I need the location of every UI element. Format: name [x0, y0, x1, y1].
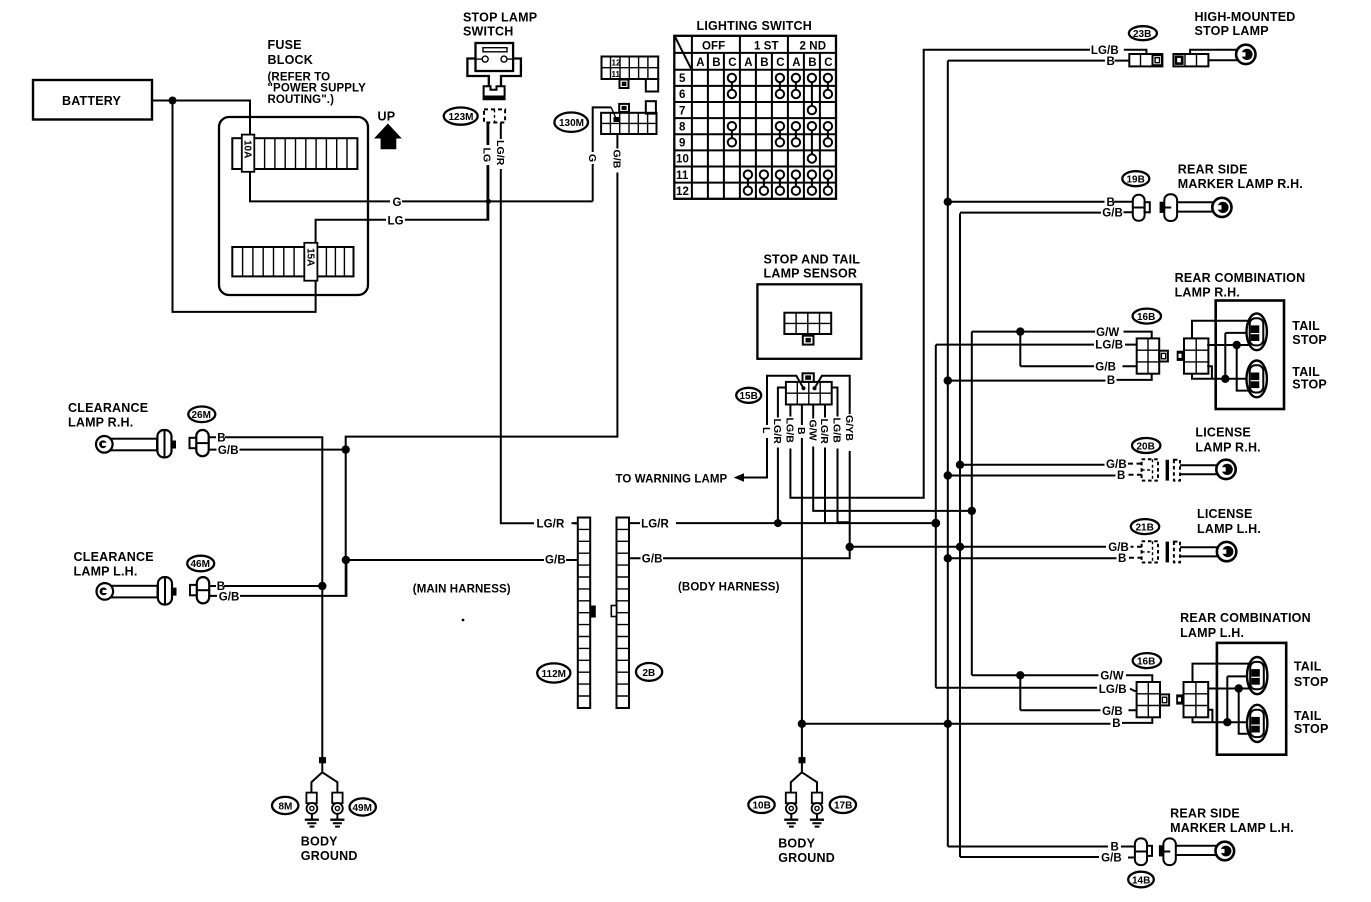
svg-text:BATTERY: BATTERY — [62, 94, 121, 108]
oval 112M — [537, 663, 570, 682]
wire B clearance L.H. — [209, 585, 322, 587]
oval 17B — [830, 797, 856, 813]
svg-text:GROUND: GROUND — [301, 849, 358, 863]
wire G/B body harness — [629, 547, 850, 558]
wire LG/R label2 — [818, 418, 830, 448]
marker RH connector capsules — [1133, 194, 1177, 221]
svg-text:A: A — [696, 57, 704, 69]
svg-text:B: B — [808, 57, 816, 69]
comb LH bulb top — [1247, 657, 1267, 694]
comb RH internal wiring — [1192, 321, 1253, 391]
svg-text:STOP AND TAIL: STOP AND TAIL — [764, 253, 861, 267]
svg-text:CLEARANCE: CLEARANCE — [74, 550, 154, 564]
svg-text:B: B — [1107, 56, 1115, 68]
svg-text:10B: 10B — [753, 801, 771, 812]
svg-text:B: B — [712, 57, 720, 69]
license RH dashed connector — [1142, 459, 1180, 480]
junction G/B license RH — [956, 461, 964, 469]
body ground left wire connector — [311, 757, 337, 793]
high-mounted bulb — [1236, 45, 1255, 64]
comb LH internal wiring — [1193, 664, 1254, 734]
svg-text:46M: 46M — [191, 559, 210, 570]
svg-text:C: C — [824, 57, 832, 69]
svg-text:C: C — [728, 57, 736, 69]
svg-text:(MAIN HARNESS): (MAIN HARNESS) — [413, 584, 511, 596]
comb LH bulb bottom — [1247, 705, 1267, 742]
oval 16B LH — [1133, 653, 1161, 668]
stop and tail lamp sensor title — [764, 253, 861, 281]
svg-text:BODY: BODY — [301, 835, 338, 849]
svg-text:B: B — [217, 432, 225, 444]
wire LG/B stop distribution vertical — [935, 345, 937, 688]
svg-text:B: B — [1117, 470, 1125, 482]
oval 16B RH — [1133, 309, 1161, 324]
wire L sensor — [744, 376, 804, 478]
battery — [33, 80, 152, 120]
svg-text:LG/R: LG/R — [641, 518, 669, 530]
svg-text:15A: 15A — [304, 248, 315, 266]
wire B marker RH — [948, 201, 1133, 203]
oval 19B — [1122, 171, 1149, 186]
wire B vertical to ground — [321, 586, 323, 757]
license LH dashed connector — [1142, 541, 1180, 562]
svg-text:LG/B: LG/B — [784, 418, 796, 444]
svg-text:17B: 17B — [834, 801, 852, 812]
stop lamp switch title — [463, 11, 537, 39]
svg-text:G/B: G/B — [642, 553, 663, 565]
oval 46M — [187, 556, 214, 572]
fuse 15A — [304, 243, 317, 281]
svg-text:26M: 26M — [192, 410, 211, 421]
oval 21B — [1131, 519, 1159, 534]
svg-text:STOP: STOP — [1292, 378, 1327, 392]
wire G fuse to lighting switch — [250, 107, 611, 201]
svg-text:G/W: G/W — [1096, 327, 1119, 339]
svg-text:STOP: STOP — [1294, 722, 1329, 736]
license lamp R.H. title — [1195, 426, 1260, 455]
svg-text:G/B: G/B — [218, 445, 239, 457]
svg-text:REAR SIDE: REAR SIDE — [1170, 807, 1240, 821]
marker RH bulb — [1212, 198, 1231, 217]
marker RH lamp wires — [1177, 202, 1213, 211]
rear combination lamp L.H. title — [1180, 611, 1311, 640]
wire LG label — [386, 214, 405, 228]
oval 20B — [1132, 438, 1160, 453]
wire G/W comb LH — [972, 675, 1153, 682]
wire LG/R label rotated — [494, 139, 506, 169]
svg-text:16B: 16B — [1137, 656, 1155, 667]
svg-text:LAMP L.H.: LAMP L.H. — [1197, 522, 1261, 536]
svg-text:B: B — [1107, 375, 1115, 387]
svg-text:LICENSE: LICENSE — [1195, 426, 1251, 440]
junction LG-G crossing dot — [486, 199, 491, 204]
fuse block outline — [219, 117, 368, 295]
svg-text:LG/R: LG/R — [771, 419, 783, 445]
wire B label — [795, 425, 807, 438]
wire LG/R label — [771, 418, 783, 448]
rear combination lamp R.H. title — [1175, 271, 1306, 300]
warning lamp arrow — [734, 473, 744, 482]
junction battery — [169, 97, 177, 105]
oval 130M — [554, 113, 588, 132]
junction comb RH tail — [1221, 375, 1229, 383]
wire B sensor pin4 to ground — [801, 405, 803, 758]
svg-text:10: 10 — [676, 154, 689, 166]
wire G/YB label — [843, 414, 855, 451]
fuse 10A — [242, 135, 255, 172]
wire LG/R body harness — [629, 522, 936, 524]
junction B license RH — [944, 471, 952, 479]
license RH lamp wires — [1180, 465, 1217, 474]
rear side marker lamp R.H. title — [1178, 163, 1303, 191]
clearance lamp L.H. bulb — [97, 577, 177, 604]
rear side marker lamp L.H. title — [1170, 807, 1294, 836]
svg-text:MARKER LAMP R.H.: MARKER LAMP R.H. — [1178, 177, 1303, 191]
svg-text:STOP: STOP — [1292, 333, 1327, 347]
svg-text:TO WARNING LAMP: TO WARNING LAMP — [616, 474, 728, 486]
junction G/W G/B branch RH — [1016, 327, 1024, 335]
wire G/B main harness — [346, 559, 578, 561]
junction comb LH tail — [1223, 718, 1231, 726]
svg-text:20B: 20B — [1137, 441, 1155, 452]
svg-text:G/B: G/B — [1106, 459, 1127, 471]
junction comb LH stop — [1235, 684, 1243, 692]
wire G/W label — [806, 419, 818, 447]
svg-text:LG/B: LG/B — [1095, 340, 1123, 352]
license RH bulb — [1216, 460, 1235, 479]
comb RH connector right half — [1177, 338, 1209, 373]
oval 2B — [636, 663, 662, 681]
svg-text:REAR COMBINATION: REAR COMBINATION — [1175, 271, 1306, 285]
wire G/B license LH — [1131, 546, 1142, 548]
oval 23B — [1129, 26, 1157, 40]
wire B marker LH — [948, 846, 1135, 848]
svg-text:LICENSE: LICENSE — [1197, 507, 1253, 521]
svg-text:G/B: G/B — [1102, 706, 1123, 718]
high-mounted connector left — [1129, 54, 1162, 66]
svg-text:G/B: G/B — [1101, 853, 1122, 865]
svg-text:STOP LAMP: STOP LAMP — [463, 11, 537, 25]
connector 123M dashed — [484, 109, 505, 122]
svg-text:11: 11 — [676, 170, 689, 182]
connector 15B — [786, 373, 832, 404]
wire G/W comb RH — [972, 332, 1152, 339]
wire LG/B label2 — [831, 417, 843, 449]
svg-text:SWITCH: SWITCH — [463, 25, 514, 39]
speck — [462, 619, 465, 622]
lighting switch contacts — [728, 74, 832, 195]
wire LG/R sensor pin2 — [778, 388, 786, 524]
connector 46M capsule — [190, 577, 209, 603]
wire B comb RH — [948, 374, 1152, 381]
wire G/B vertical to L.H. — [345, 450, 347, 596]
fuse row top — [232, 138, 357, 169]
connector 2B strip — [611, 518, 629, 709]
comb LH connector right half — [1176, 682, 1208, 717]
svg-text:5: 5 — [679, 73, 686, 85]
clearance lamp R.H. bulb — [96, 430, 176, 457]
lighting switch connector upper block — [602, 57, 659, 92]
wire LG/B comb RH — [936, 344, 1137, 346]
svg-text:14B: 14B — [1132, 875, 1150, 886]
comb LH connector left half — [1137, 682, 1170, 717]
license LH lamp wires — [1180, 547, 1217, 556]
svg-text:GROUND: GROUND — [778, 851, 835, 865]
wire G/B marker LH — [960, 856, 1135, 859]
junction B feed — [944, 720, 952, 728]
junction B clearance L.H. — [318, 582, 326, 590]
svg-text:7: 7 — [679, 105, 686, 117]
svg-text:TAIL: TAIL — [1294, 660, 1322, 674]
svg-text:REAR COMBINATION: REAR COMBINATION — [1180, 611, 1311, 625]
clearance lamp L.H. title — [74, 550, 154, 579]
sensor internal connector — [784, 313, 831, 345]
svg-text:LG/R: LG/R — [494, 140, 506, 166]
svg-text:G: G — [393, 197, 402, 209]
wire G/B lighting switch down — [346, 134, 618, 450]
wire B clearance R.H. — [209, 437, 323, 586]
wire G/B clearance R.H. — [209, 449, 346, 451]
stop lamp switch symbol — [467, 43, 521, 99]
svg-text:130M: 130M — [559, 118, 584, 129]
junction G/YB G/B — [846, 543, 854, 551]
wire LG fuse to stop lamp switch — [316, 123, 489, 243]
fuse block caption — [268, 38, 367, 106]
svg-text:1 ST: 1 ST — [754, 41, 779, 53]
svg-text:19B: 19B — [1127, 175, 1145, 186]
wire LG stop lamp switch — [487, 123, 489, 220]
oval 14B — [1128, 872, 1154, 888]
wire G/B distribution vertical — [960, 212, 1133, 857]
svg-text:G/W: G/W — [1100, 671, 1123, 683]
svg-text:CLEARANCE: CLEARANCE — [68, 401, 148, 415]
svg-text:123M: 123M — [449, 112, 474, 123]
wire LG/R stop lamp switch down to main harness — [501, 123, 578, 523]
svg-text:12: 12 — [612, 59, 621, 68]
junction B license LH — [944, 554, 952, 562]
svg-text:G/B: G/B — [611, 150, 623, 169]
svg-text:MARKER LAMP L.H.: MARKER LAMP L.H. — [1170, 821, 1294, 835]
body ground left label — [301, 835, 358, 864]
svg-text:HIGH-MOUNTED: HIGH-MOUNTED — [1195, 10, 1296, 24]
rear combination lamp L.H. box — [1217, 643, 1286, 755]
svg-text:LAMP R.H.: LAMP R.H. — [1175, 286, 1240, 300]
wire G/B comb LH — [1020, 675, 1136, 710]
svg-text:8M: 8M — [279, 802, 293, 813]
svg-text:G/B: G/B — [1108, 542, 1129, 554]
svg-text:21B: 21B — [1136, 522, 1154, 533]
license lamp L.H. title — [1197, 507, 1261, 536]
wire LG/B label — [784, 417, 796, 449]
junction G/W G/B branch LH — [1016, 671, 1024, 679]
svg-text:G/W: G/W — [806, 420, 818, 441]
junction G/B feed — [956, 543, 964, 551]
marker LH lamp wires — [1176, 846, 1216, 855]
svg-text:G/B: G/B — [1102, 207, 1123, 219]
wire LG/B sensor pin3 to high-mounted feed — [790, 50, 1090, 498]
svg-text:B: B — [760, 57, 768, 69]
svg-text:LG/R: LG/R — [818, 419, 830, 445]
wire B comb LH — [802, 717, 1152, 724]
svg-text:112M: 112M — [542, 669, 566, 680]
oval 123M — [444, 108, 478, 125]
svg-text:LAMP SENSOR: LAMP SENSOR — [764, 267, 858, 281]
svg-text:L: L — [760, 427, 772, 434]
svg-text:G/YB: G/YB — [843, 415, 855, 441]
svg-text:11: 11 — [612, 70, 621, 79]
svg-text:LIGHTING SWITCH: LIGHTING SWITCH — [697, 19, 813, 33]
comb RH bulb bottom — [1247, 361, 1267, 398]
svg-text:A: A — [792, 57, 800, 69]
svg-text:G/B: G/B — [219, 591, 240, 603]
junction G/B clearance — [342, 445, 350, 453]
junction comb RH stop — [1233, 341, 1241, 349]
svg-text:49M: 49M — [353, 803, 372, 814]
svg-text:TAIL: TAIL — [1292, 319, 1320, 333]
oval 8M — [272, 797, 298, 814]
svg-text:BODY: BODY — [778, 837, 815, 851]
oval 10B — [748, 797, 774, 813]
svg-text:LAMP L.H.: LAMP L.H. — [74, 565, 138, 579]
oval 15B — [736, 388, 761, 403]
rear combination lamp R.H. box — [1216, 301, 1284, 410]
svg-text:G/B: G/B — [1095, 362, 1116, 374]
svg-text:B: B — [1112, 718, 1120, 730]
svg-text:ROUTING".): ROUTING".) — [268, 94, 335, 106]
wire LG/R sensor pin6 — [824, 405, 826, 524]
connector 112M strip — [578, 518, 596, 709]
junction B comb RH — [944, 376, 952, 384]
svg-text:LAMP R.H.: LAMP R.H. — [1195, 441, 1260, 455]
svg-text:8: 8 — [679, 121, 686, 133]
junction LG/R sensor — [774, 519, 782, 527]
junction LG/R body end — [931, 519, 940, 528]
wire G/B to license L.H. — [850, 546, 1106, 548]
comb RH bulb top — [1247, 313, 1267, 350]
wire battery to fuse block — [152, 101, 316, 312]
wire LG/B step to connector — [1124, 50, 1147, 54]
wire LG/B comb LH — [936, 688, 1137, 691]
svg-text:LG/B: LG/B — [1099, 684, 1127, 696]
comb RH connector left half — [1137, 338, 1168, 373]
svg-text:C: C — [776, 57, 784, 69]
svg-text:12: 12 — [676, 186, 689, 198]
svg-text:B: B — [1118, 553, 1126, 565]
svg-text:LG: LG — [481, 148, 493, 163]
wire L label — [760, 425, 772, 438]
junction B sensor ground — [798, 720, 806, 728]
svg-text:OFF: OFF — [702, 41, 725, 53]
wire B distribution vertical — [948, 61, 1130, 847]
ground terminal 49M — [330, 793, 344, 827]
connector 26M capsule — [190, 430, 209, 456]
svg-text:LAMP L.H.: LAMP L.H. — [1180, 626, 1244, 640]
wire G/W distribution vertical — [971, 332, 973, 676]
svg-text:16B: 16B — [1137, 312, 1155, 323]
wire G/B comb RH — [1020, 332, 1136, 367]
wire B license LH — [948, 557, 1142, 560]
marker LH bulb — [1216, 842, 1235, 861]
high-mounted lamp wires — [1190, 50, 1237, 60]
svg-text:6: 6 — [679, 89, 686, 101]
wire G/W sensor pin5 — [813, 405, 972, 511]
svg-text:STOP LAMP: STOP LAMP — [1195, 24, 1269, 38]
ground terminal 8M — [305, 793, 319, 827]
svg-text:LG/R: LG/R — [537, 519, 565, 531]
svg-text:LG: LG — [388, 216, 404, 228]
svg-text:15B: 15B — [740, 391, 758, 402]
junction B marker RH — [944, 198, 952, 206]
wire G label — [390, 195, 402, 209]
wire LG/R label gap segment — [572, 522, 578, 524]
license LH bulb — [1217, 542, 1236, 561]
svg-text:(BODY HARNESS): (BODY HARNESS) — [678, 582, 780, 594]
svg-text:A: A — [744, 57, 752, 69]
wire G label rotated (lighting switch) — [586, 152, 598, 164]
ground terminal 10B — [784, 793, 798, 827]
high-mounted connector right — [1173, 54, 1208, 66]
wire G/YB sensor pin8 — [815, 376, 850, 547]
svg-text:UP: UP — [378, 110, 396, 124]
svg-text:G/B: G/B — [545, 555, 566, 567]
body ground right label — [778, 837, 835, 866]
marker LH connector capsules — [1135, 838, 1176, 865]
lighting switch connector lower block — [601, 101, 656, 134]
clearance lamp R.H. title — [68, 401, 148, 430]
oval 49M — [350, 798, 376, 815]
svg-text:2B: 2B — [643, 668, 656, 679]
svg-text:STOP: STOP — [1294, 675, 1329, 689]
UP arrow — [374, 110, 402, 150]
svg-text:FUSE: FUSE — [268, 38, 302, 52]
high-mounted stop lamp title — [1195, 10, 1296, 38]
svg-text:9: 9 — [679, 138, 686, 150]
ground terminal 17B — [810, 793, 824, 827]
wire G/B license RH — [960, 464, 1142, 465]
wire G/B clearance L.H. — [209, 560, 346, 596]
lighting switch table — [674, 36, 836, 199]
junction G/B main harness — [342, 556, 350, 564]
wire LG/B sensor pin7 — [832, 388, 850, 523]
stop and tail lamp sensor box — [757, 284, 861, 359]
svg-text:10A: 10A — [242, 140, 253, 158]
svg-text:G: G — [586, 154, 598, 162]
svg-text:BLOCK: BLOCK — [268, 53, 313, 67]
wire LG label rotated — [481, 145, 493, 165]
svg-text:23B: 23B — [1133, 29, 1151, 40]
svg-text:LG/B: LG/B — [831, 418, 843, 444]
fuse row bottom — [232, 247, 353, 276]
svg-text:"POWER SUPPLY: "POWER SUPPLY — [268, 83, 367, 95]
body ground right wire connector — [791, 757, 817, 793]
svg-text:B: B — [795, 427, 807, 435]
svg-text:REAR SIDE: REAR SIDE — [1178, 163, 1248, 177]
junction G/W sensor — [968, 507, 976, 515]
label LG/R main — [534, 517, 574, 531]
oval 26M — [188, 407, 215, 423]
svg-text:2 ND: 2 ND — [800, 41, 827, 53]
wire B license RH — [948, 474, 1142, 477]
wire G/B label rotated — [611, 149, 623, 173]
svg-text:LAMP R.H.: LAMP R.H. — [68, 416, 133, 430]
